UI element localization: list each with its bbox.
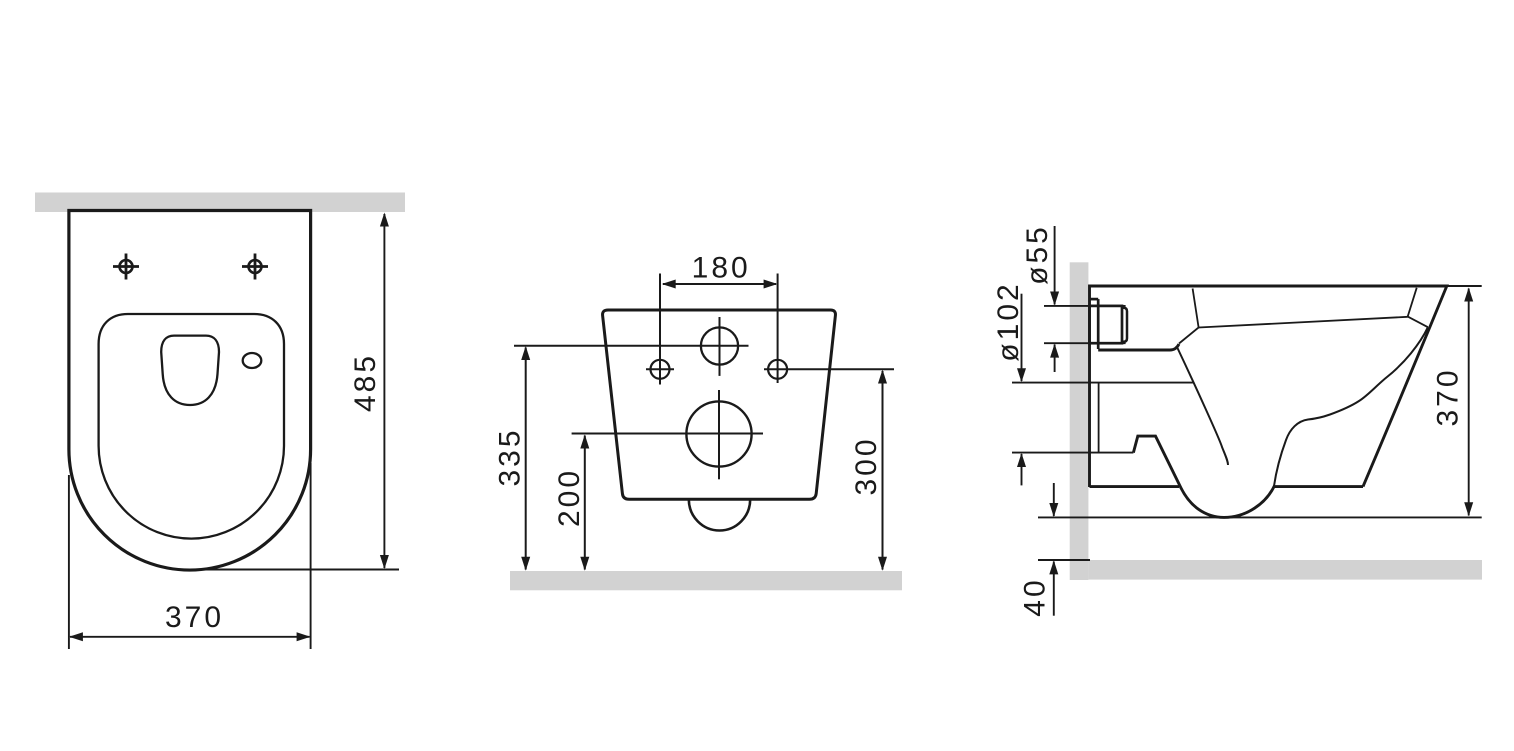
spigot wall flange (side view) [1090, 299, 1099, 349]
dimension 300 [850, 370, 887, 571]
dimension ø55 [1021, 224, 1059, 372]
body bottom edge left segment (side view) [1090, 485, 1180, 488]
body outline: back edge, top edge, front slant (side view) [1090, 286, 1447, 487]
wall bar (top view) [35, 193, 405, 213]
toilet outer body (top view) [69, 211, 311, 571]
dimension ø102 [992, 281, 1026, 485]
drain opening (top view) [161, 336, 219, 405]
drain outlet circle (rear view) [686, 390, 751, 479]
fixing hole right (rear view) [768, 360, 787, 379]
extension line for 300 (through right fixing hole) [764, 368, 894, 370]
extension line at body bottom (for 485) [193, 569, 399, 571]
svg-text:ø102: ø102 [992, 281, 1025, 361]
water channel step and trap bottom (side view) [1133, 436, 1363, 517]
water inlet circle (rear view) [701, 317, 738, 376]
dimension 180 [662, 251, 778, 288]
svg-text:300: 300 [850, 436, 883, 495]
outlet back line (side view) [1098, 383, 1100, 453]
bowl interior curve (side view) [1274, 327, 1428, 486]
extension lines for ø55 [1044, 306, 1126, 343]
dimension 485 [349, 213, 389, 570]
seat inner outline (top view) [99, 314, 284, 539]
seat top line (side view) [1199, 317, 1408, 328]
dimension 200 [553, 435, 589, 571]
svg-text:200: 200 [553, 468, 586, 527]
dimension 335 [494, 346, 531, 571]
floor bar (side view) [1088, 560, 1482, 580]
extension lines for 370 [69, 463, 311, 649]
svg-text:ø55: ø55 [1021, 224, 1054, 285]
fixing hole cross left [113, 254, 139, 280]
floor bar (rear view) [510, 571, 902, 590]
dimension 40 [1019, 483, 1059, 617]
flush button hole (top view) [243, 353, 262, 368]
svg-text:180: 180 [692, 251, 751, 284]
inlet spigot (side view) [1090, 306, 1128, 343]
extension line at floor top (for 40) [1038, 559, 1090, 561]
extension lines for ø102 [1012, 383, 1193, 453]
extension line for 200 (through drain circle) [572, 433, 763, 435]
shelf under spigot (side view) [1098, 344, 1179, 350]
fixing hole left (rear view) [646, 360, 674, 379]
svg-text:485: 485 [349, 353, 382, 412]
svg-text:335: 335 [494, 427, 527, 486]
svg-text:370: 370 [165, 601, 224, 634]
seat back corner lines (side view) [1179, 289, 1199, 344]
bowl back slope (side view) [1177, 347, 1228, 465]
dimension 370 [69, 601, 311, 642]
rim front corner lines (side view) [1408, 288, 1428, 327]
extension lines for 180 [660, 274, 778, 385]
svg-text:40: 40 [1019, 577, 1052, 616]
toilet body trapezoid (rear view) [603, 310, 836, 499]
trap bulge arc (rear view) [689, 499, 750, 530]
fixing hole cross right [242, 254, 268, 280]
wall bar (side view) [1070, 262, 1089, 580]
extension line at body top right (for 370) [1447, 285, 1482, 287]
svg-text:370: 370 [1432, 367, 1465, 426]
extension line for 335 (through inlet circle) [514, 345, 749, 347]
extension line at trap bottom (for 40 and 370) [1038, 516, 1482, 518]
dimension 370 (side view) [1432, 288, 1474, 517]
